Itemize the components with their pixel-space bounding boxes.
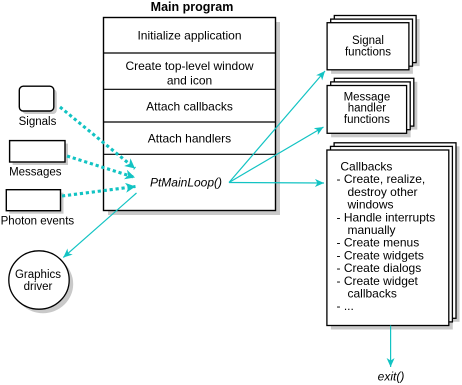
Message handler functions stack — [327, 78, 417, 137]
Photon events box — [1, 190, 75, 228]
exit() label — [378, 370, 405, 384]
svg-text:Initialize application: Initialize application — [137, 29, 241, 43]
svg-text:callbacks: callbacks — [348, 287, 397, 301]
main program box — [104, 18, 276, 211]
divider line 2 — [104, 88, 276, 90]
svg-text:Message: Message — [344, 91, 391, 103]
Signal functions stack — [327, 16, 419, 74]
svg-text:- ...: - ... — [337, 299, 354, 313]
svg-text:Main program: Main program — [151, 0, 234, 14]
shadow of front layer — [331, 154, 453, 330]
svg-text:driver: driver — [24, 281, 53, 293]
dashed arrow: Signals to PtMainLoop — [60, 107, 135, 169]
Photon events box shadow — [9, 193, 63, 214]
arrow: main program to Graphics driver — [63, 193, 136, 258]
back layer — [334, 78, 414, 126]
Signals box — [19, 86, 57, 128]
svg-text:Signals: Signals — [19, 116, 57, 128]
svg-text:functions: functions — [344, 114, 390, 126]
dashed arrow: Messages to PtMainLoop — [67, 156, 135, 178]
shadow of front layer — [331, 27, 413, 74]
svg-text:functions: functions — [345, 47, 391, 59]
arrow: Callbacks to exit() — [390, 326, 392, 368]
divider line 4 — [104, 153, 276, 155]
svg-text:Messages: Messages — [9, 167, 62, 179]
shadow of back layer — [338, 82, 418, 130]
back layer — [334, 143, 456, 318]
divider line 3 — [104, 121, 276, 123]
main program box shadow — [108, 22, 280, 215]
svg-text:Signal: Signal — [352, 35, 384, 47]
svg-text:Attach callbacks: Attach callbacks — [146, 100, 233, 114]
svg-text:Attach handlers: Attach handlers — [148, 132, 231, 146]
arrow: PtMainLoop to Message handler functions — [229, 127, 324, 183]
front layer — [327, 150, 449, 326]
Messages box — [9, 141, 65, 179]
svg-text:and icon: and icon — [167, 74, 212, 88]
svg-text:Graphics: Graphics — [15, 269, 61, 281]
arrow: PtMainLoop to Signal functions — [229, 71, 325, 183]
svg-text:exit(): exit() — [378, 370, 405, 384]
middle layer — [331, 146, 453, 322]
Callbacks stack — [327, 143, 460, 330]
svg-text:Create top-level window: Create top-level window — [125, 59, 253, 73]
Signals box shadow — [22, 89, 57, 114]
dashed arrow: Photon events to PtMainLoop — [62, 187, 136, 197]
shadow of front layer — [331, 90, 411, 138]
Graphics driver circle shadow — [13, 255, 73, 313]
middle layer — [331, 19, 413, 66]
front layer — [327, 23, 409, 70]
svg-text:handler: handler — [348, 103, 387, 115]
arrow: PtMainLoop to Callbacks — [229, 182, 324, 185]
Graphics driver circle — [9, 251, 69, 309]
divider line 1 — [104, 52, 276, 54]
Messages box shadow — [13, 144, 68, 165]
front layer — [327, 86, 407, 134]
shadow of back layer — [338, 19, 420, 66]
middle layer — [331, 82, 411, 130]
title: Main program — [151, 0, 234, 14]
shadow of back layer — [338, 146, 460, 321]
back layer — [334, 16, 416, 63]
svg-text:Photon events: Photon events — [1, 215, 75, 227]
svg-text:PtMainLoop(): PtMainLoop() — [150, 175, 222, 189]
